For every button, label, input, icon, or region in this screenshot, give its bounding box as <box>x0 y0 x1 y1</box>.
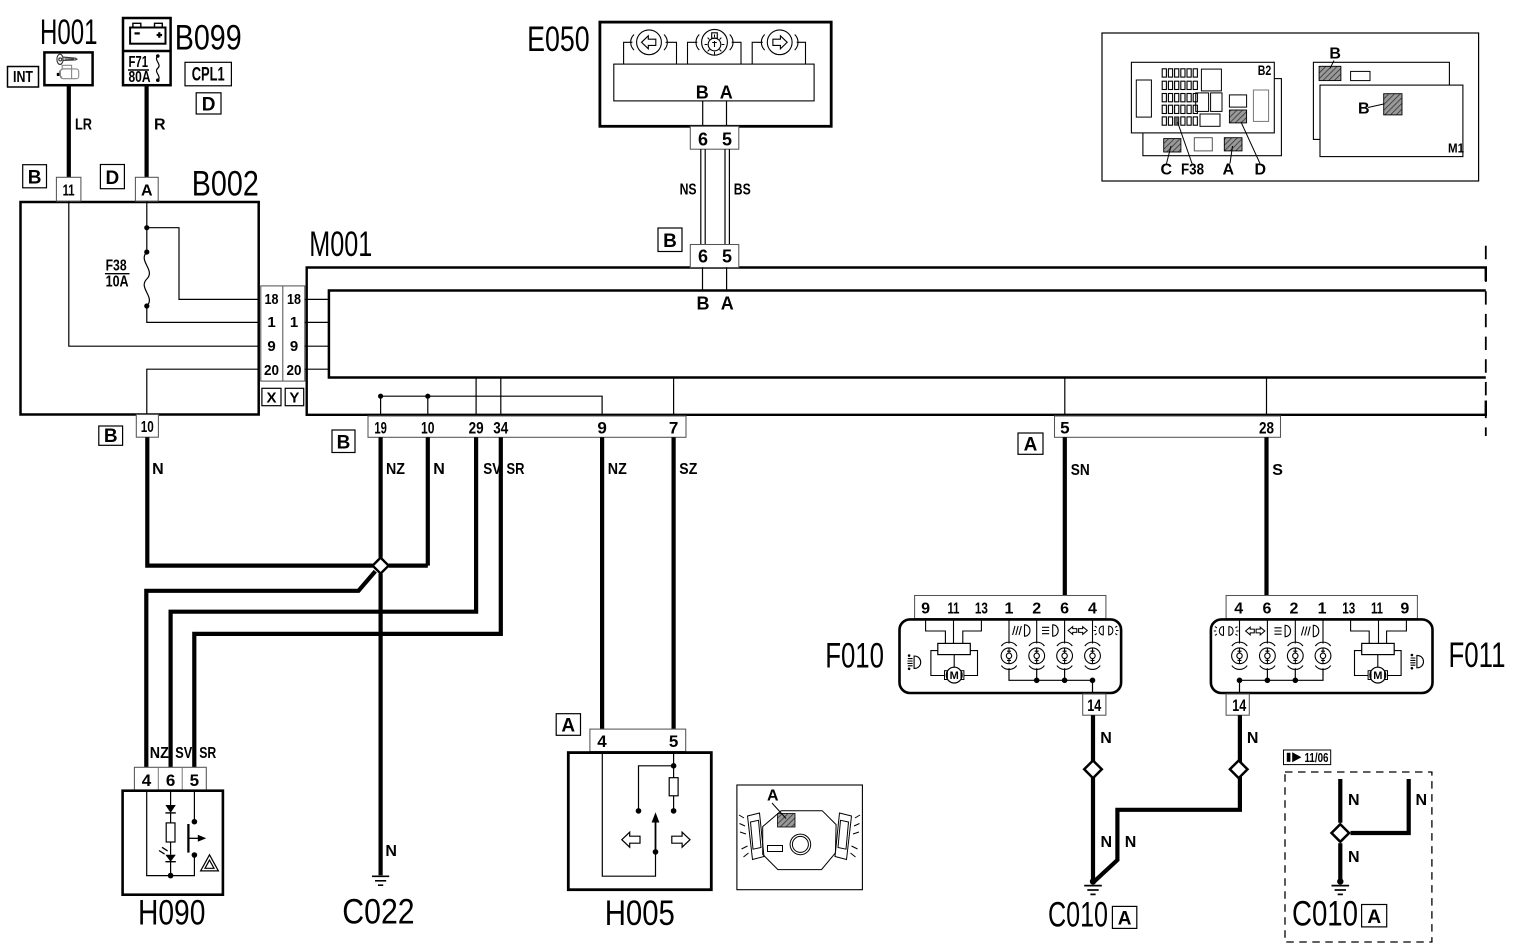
wire SZ M001 pin7 to H005 pin5 <box>671 437 675 729</box>
svg-text:80A: 80A <box>129 69 151 86</box>
tag Y <box>285 388 304 406</box>
svg-text:M: M <box>1373 670 1382 682</box>
leader F38 <box>1178 122 1193 164</box>
connector white top <box>1351 71 1370 80</box>
E050 connector 6 5 <box>690 126 739 149</box>
svg-text:11/06: 11/06 <box>1305 751 1329 765</box>
label B with leader on M1 <box>1358 101 1384 118</box>
svg-text:D: D <box>106 168 120 189</box>
svg-text:C: C <box>1161 162 1173 179</box>
switch actuator arrow <box>188 835 206 842</box>
svg-text:R: R <box>154 117 166 134</box>
steering column body <box>763 811 836 870</box>
svg-text:SR: SR <box>507 461 525 478</box>
svg-text:9: 9 <box>1400 600 1409 617</box>
pin 10 B002 <box>136 415 158 438</box>
svg-text:A: A <box>720 83 733 103</box>
svg-text:N: N <box>1100 730 1112 747</box>
svg-text:F38: F38 <box>1181 162 1204 179</box>
svg-text:18: 18 <box>287 291 301 308</box>
hazard triangle icon <box>201 855 219 871</box>
turn signal switch H005 connector 4 5 <box>590 729 686 751</box>
rear lamps cluster F011 graphics mirrored <box>1211 596 1433 716</box>
F010 low beam icon <box>1042 625 1058 636</box>
svg-text:6: 6 <box>1262 600 1271 617</box>
svg-text:M001: M001 <box>309 225 372 264</box>
svg-text:4: 4 <box>1234 600 1243 617</box>
svg-text:6: 6 <box>698 246 708 266</box>
svg-text:11: 11 <box>948 600 960 617</box>
wire SR M001 pin34 to H090 pin5 <box>194 437 501 767</box>
module front plate M1 <box>1320 85 1463 157</box>
tag A at H005 <box>556 714 580 737</box>
svg-text:5: 5 <box>1060 419 1069 438</box>
M001 inner box <box>329 291 1486 378</box>
tag D <box>100 165 124 189</box>
switch lever <box>187 824 189 853</box>
svg-text:6: 6 <box>698 129 708 149</box>
ground C010 <box>1084 886 1102 895</box>
svg-text:SZ: SZ <box>679 461 697 478</box>
fusebox B002 box <box>21 202 259 415</box>
wire NZ diamond to H090 pin4 <box>146 571 375 767</box>
relay blocks in B2 <box>1136 69 1268 126</box>
twin wire NS <box>701 149 705 244</box>
svg-text:B002: B002 <box>192 164 259 203</box>
svg-text:1: 1 <box>1318 600 1327 617</box>
svg-text:6: 6 <box>166 771 175 790</box>
junction diamond variant <box>1332 824 1350 842</box>
svg-text:LR: LR <box>75 117 92 134</box>
svg-text:B: B <box>1358 101 1370 118</box>
pin numbers left column <box>264 291 279 379</box>
svg-text:9: 9 <box>267 338 275 355</box>
svg-text:A: A <box>141 183 153 200</box>
fusebox front plate B2 <box>1131 62 1274 133</box>
svg-text:20: 20 <box>264 362 279 379</box>
battery icon <box>130 23 165 43</box>
E050 inner box <box>614 64 814 101</box>
fuse F38 10A symbol <box>144 252 149 306</box>
row links to M001 inner box <box>305 299 329 369</box>
svg-text:A: A <box>767 788 779 805</box>
svg-text:B: B <box>337 433 351 454</box>
svg-text:11: 11 <box>1371 600 1383 617</box>
svg-text:A: A <box>1118 909 1132 930</box>
svg-text:5: 5 <box>722 129 732 149</box>
H090 internal left branch <box>147 791 171 876</box>
left arrow indicator icon <box>624 30 677 64</box>
svg-text:C010: C010 <box>1292 895 1358 934</box>
M001 top connector 6 5 <box>690 245 739 268</box>
junction diamond F011 <box>1230 761 1248 779</box>
leader C <box>1167 146 1172 164</box>
battery B099 box <box>123 18 171 85</box>
svg-text:N: N <box>1416 792 1428 809</box>
H090 diode resistor LED chain <box>166 791 175 876</box>
INT tag box <box>8 67 39 88</box>
left arrow icon <box>622 832 640 847</box>
right stalk <box>835 813 860 860</box>
ground C010 dot <box>1090 878 1096 884</box>
svg-text:F010: F010 <box>825 637 884 676</box>
svg-text:N: N <box>1101 834 1113 851</box>
F011 fog lamp icon <box>1301 625 1318 636</box>
svg-text:6: 6 <box>1060 600 1069 617</box>
B002 wire fuse to pin1 <box>147 306 259 322</box>
svg-text:4: 4 <box>142 771 152 790</box>
E050 wires B A to connector <box>703 101 727 126</box>
variant dashed box C010 <box>1285 772 1432 942</box>
svg-text:F011: F011 <box>1449 636 1506 675</box>
svg-text:2: 2 <box>1032 600 1041 617</box>
svg-text:1: 1 <box>290 314 298 331</box>
revision flag 11/06 <box>1284 750 1331 765</box>
svg-text:D: D <box>202 95 216 116</box>
M001 bottom connector A (5 28) <box>1055 416 1281 438</box>
B002 branch to pin18 <box>147 228 259 300</box>
right arrow indicator icon <box>752 30 805 64</box>
wire SV M001 pin29 to H090 pin6 <box>171 437 477 767</box>
M001 bottom connector B (19 10 29 34 9 7) <box>368 416 686 438</box>
pin numbers right column <box>287 291 302 379</box>
svg-text:M1: M1 <box>1448 142 1464 156</box>
label F38 10A <box>105 258 130 291</box>
svg-text:S: S <box>1272 462 1283 479</box>
svg-text:18: 18 <box>265 291 279 308</box>
LED <box>159 847 176 861</box>
location inset frame <box>1102 33 1479 181</box>
H005 resistor <box>669 778 678 796</box>
svg-text:14: 14 <box>1232 696 1246 715</box>
svg-text:NZ: NZ <box>386 461 405 478</box>
wire NZ from M001 pin19 <box>379 437 383 557</box>
svg-text:B: B <box>28 168 42 189</box>
switch contacts <box>192 819 198 825</box>
svg-text:H001: H001 <box>40 13 98 52</box>
svg-text:11: 11 <box>63 183 75 200</box>
svg-text:B: B <box>663 231 677 252</box>
switch H001 box <box>44 52 92 85</box>
right arrow icon <box>672 832 690 847</box>
pin A B002 <box>135 177 158 201</box>
module rear plate <box>1313 62 1449 139</box>
H005 contact dots <box>671 763 677 769</box>
connector white <box>1194 138 1212 151</box>
svg-text:B: B <box>697 294 710 314</box>
F011 horn icon <box>1410 654 1423 670</box>
connector B hatched top <box>1319 66 1341 80</box>
fuse F71 80A <box>128 54 160 86</box>
fuse grid <box>1162 69 1197 125</box>
connector B hatched on M1 <box>1384 94 1402 115</box>
svg-text:B2: B2 <box>1258 63 1272 78</box>
F011 position lamp icon <box>1214 627 1239 636</box>
hazard switch E050 box <box>600 22 831 126</box>
ground C022 <box>372 876 389 885</box>
wire N right <box>1351 779 1409 833</box>
svg-text:19: 19 <box>374 419 387 438</box>
wire N down to C022 <box>379 574 383 876</box>
wire N F011 pin14 to ground <box>1094 715 1240 882</box>
svg-text:N: N <box>1348 849 1360 866</box>
svg-text:A: A <box>1223 162 1235 179</box>
svg-text:C010: C010 <box>1048 896 1108 935</box>
F010 turn arrows icon <box>1068 627 1087 635</box>
H090 switch branch <box>171 791 195 876</box>
svg-text:5: 5 <box>190 771 199 790</box>
F011 turn arrows icon <box>1246 627 1265 635</box>
hazard lamp icon <box>688 29 742 64</box>
wire LR H001 to B002 pin 11 <box>67 85 71 178</box>
svg-text:X: X <box>266 390 276 407</box>
svg-text:34: 34 <box>493 419 508 438</box>
svg-text:28: 28 <box>1259 419 1274 438</box>
svg-text:N: N <box>152 461 164 478</box>
svg-text:14: 14 <box>1087 696 1101 715</box>
svg-text:NS: NS <box>680 182 697 199</box>
svg-text:SV: SV <box>175 745 192 762</box>
svg-text:SN: SN <box>1071 462 1090 479</box>
junction diamond F010 <box>1084 761 1102 779</box>
svg-text:H005: H005 <box>605 894 675 933</box>
svg-text:INT: INT <box>13 69 33 86</box>
H005 lever arrow <box>652 812 660 852</box>
M001 dashed edge <box>1485 246 1487 436</box>
twin wires into M001 <box>703 268 727 291</box>
B002 internal wire pin11 to pin9 <box>69 201 259 346</box>
F010 position lamp icon <box>1094 626 1119 635</box>
junction diamond <box>373 558 389 574</box>
body computer M001 outer box <box>307 268 1486 415</box>
svg-text:5: 5 <box>722 246 732 266</box>
fuse F38 highlighted <box>1175 117 1179 125</box>
tag B <box>23 165 47 189</box>
connector columns B002-M001 <box>261 286 305 381</box>
svg-text:13: 13 <box>1342 600 1355 617</box>
wire N from B002 pin10 <box>147 437 372 565</box>
front lamps cluster F010 graphics <box>900 596 1122 716</box>
svg-text:Y: Y <box>289 390 299 407</box>
hatched connector on column <box>778 814 796 828</box>
B002 internal wire pinA to fuse <box>146 201 148 252</box>
tag B at M001 bottom left <box>332 430 355 454</box>
B002 wire pin20 to pin10 <box>147 369 259 414</box>
connector A hatched <box>1224 138 1242 151</box>
turn signal switch H005 box <box>568 753 711 890</box>
svg-text:A: A <box>1367 907 1381 928</box>
wire N from M001 pin10 <box>389 437 428 565</box>
label A with leader <box>767 788 786 819</box>
svg-text:B: B <box>696 83 709 103</box>
label B with leader <box>1329 46 1341 69</box>
svg-text:5: 5 <box>669 732 678 751</box>
F011 pin numbers <box>1234 600 1409 617</box>
svg-text:B099: B099 <box>175 19 242 58</box>
svg-text:A: A <box>561 716 575 737</box>
svg-text:C022: C022 <box>342 893 414 932</box>
svg-text:4: 4 <box>597 732 607 751</box>
ground C010 variant <box>1332 886 1350 895</box>
svg-text:1: 1 <box>267 314 275 331</box>
svg-text:N: N <box>433 461 445 478</box>
leader A <box>1230 146 1233 164</box>
svg-text:7: 7 <box>669 419 678 438</box>
svg-text:B: B <box>1329 46 1341 63</box>
pin 11 B002 <box>56 177 81 201</box>
svg-text:9: 9 <box>290 338 298 355</box>
M001 internal jumper 19-10-9 <box>381 396 602 416</box>
F011 low beam icon <box>1274 625 1290 636</box>
svg-text:10: 10 <box>141 419 154 436</box>
svg-text:NZ: NZ <box>150 745 169 762</box>
tag X <box>262 388 281 406</box>
svg-text:9: 9 <box>921 600 930 617</box>
svg-text:A: A <box>721 294 734 314</box>
svg-text:CPL1: CPL1 <box>192 65 225 86</box>
svg-text:SR: SR <box>199 745 216 762</box>
hazard warning switch H090 connector 4 6 5 <box>134 767 206 790</box>
F010 fog lamp icon <box>1013 625 1030 636</box>
tag D <box>196 93 221 116</box>
left stalk <box>739 813 764 860</box>
svg-text:M: M <box>950 670 959 682</box>
svg-text:2: 2 <box>1290 600 1299 617</box>
svg-text:N: N <box>385 843 397 860</box>
ground dot <box>1337 878 1343 884</box>
tag A at M001 bottom <box>1018 433 1043 456</box>
svg-text:10A: 10A <box>106 274 129 291</box>
tag A variant <box>1362 905 1387 928</box>
svg-text:4: 4 <box>1088 600 1097 617</box>
wire NZ M001 pin9 to H005 pin4 <box>600 437 604 729</box>
hazard warning switch H090 box <box>123 791 223 895</box>
wire N left <box>1338 779 1342 823</box>
svg-text:E050: E050 <box>527 20 590 59</box>
tag B below B002 <box>99 426 123 447</box>
svg-text:B: B <box>104 426 118 447</box>
svg-text:NZ: NZ <box>608 461 627 478</box>
diode <box>165 805 175 813</box>
tag A at C010 <box>1112 906 1136 929</box>
junction dot <box>168 873 174 879</box>
steering column picture box <box>737 785 863 890</box>
svg-text:N: N <box>1348 792 1360 809</box>
wire SN M001 pin5 to F010 <box>1063 437 1067 595</box>
junction dots <box>144 225 149 230</box>
svg-text:N: N <box>1247 730 1259 747</box>
svg-text:H090: H090 <box>138 894 205 933</box>
svg-text:20: 20 <box>287 362 302 379</box>
svg-text:F38: F38 <box>106 258 127 275</box>
svg-text:A: A <box>1024 435 1038 456</box>
wire N to ground <box>1338 843 1342 881</box>
H005 pin5 branch <box>639 753 674 811</box>
wire S M001 pin28 to F011 <box>1264 437 1268 595</box>
jumper dots <box>378 394 383 399</box>
key icon <box>57 54 79 79</box>
svg-text:13: 13 <box>975 600 988 617</box>
fusebox rear plate <box>1143 79 1282 156</box>
svg-text:N: N <box>1125 834 1137 851</box>
F010 horn icon <box>908 654 921 670</box>
svg-text:10: 10 <box>421 419 435 438</box>
wire R B099 to B002 pin A <box>145 85 149 178</box>
F010 pin numbers <box>921 600 1097 617</box>
svg-text:D: D <box>1255 162 1267 179</box>
connector C hatched <box>1164 139 1181 152</box>
leader D <box>1241 122 1260 164</box>
svg-text:1: 1 <box>1005 600 1014 617</box>
svg-text:9: 9 <box>597 419 606 438</box>
tag CPL1 <box>185 62 231 86</box>
tag B at M001 top connector <box>658 228 682 252</box>
wire N F010 pin14 to ground <box>1091 715 1095 881</box>
twin wire BS <box>725 149 729 244</box>
H005 internal common branch <box>602 753 655 877</box>
M001 internal verticals to bottom pins <box>476 378 1266 417</box>
svg-text:BS: BS <box>734 182 751 199</box>
svg-text:29: 29 <box>469 419 484 438</box>
connector D hatched <box>1229 110 1246 123</box>
